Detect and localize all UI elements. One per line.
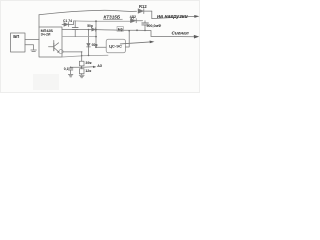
svg-text:б0р: б0р (92, 43, 98, 47)
svg-text:БП: БП (13, 34, 19, 39)
svg-text:500,0мФ: 500,0мФ (147, 24, 162, 28)
svg-text:АЗ: АЗ (97, 64, 103, 68)
svg-text:С1 74: С1 74 (63, 19, 72, 23)
svg-text:12к: 12к (85, 69, 91, 73)
svg-text:на нагрузки: на нагрузки (157, 14, 189, 20)
svg-text:Бф: Бф (118, 28, 123, 32)
svg-text:Зч-2И: Зч-2И (41, 33, 51, 37)
svg-text:R12: R12 (139, 4, 147, 9)
svg-text:4Д2: 4Д2 (130, 15, 136, 19)
svg-text:КТ315Б: КТ315Б (104, 14, 121, 19)
svg-text:ЦС-ЭС: ЦС-ЭС (109, 43, 122, 48)
svg-text:39к: 39к (85, 61, 91, 65)
svg-text:0,1: 0,1 (64, 67, 69, 71)
svg-text:Сигнал: Сигнал (172, 30, 189, 35)
svg-text:50р: 50р (87, 24, 93, 28)
